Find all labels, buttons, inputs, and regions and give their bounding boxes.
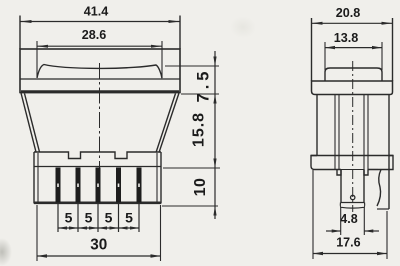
svg-text:5: 5	[125, 210, 133, 226]
svg-text:15.8: 15.8	[191, 112, 208, 147]
svg-text:20.8: 20.8	[336, 6, 361, 20]
svg-text:5: 5	[85, 210, 93, 226]
svg-text:10: 10	[192, 178, 209, 197]
svg-text:17.6: 17.6	[336, 236, 360, 250]
svg-text:30: 30	[90, 236, 107, 253]
svg-text:4.8: 4.8	[340, 212, 357, 226]
svg-text:5: 5	[105, 210, 113, 226]
svg-text:13.8: 13.8	[334, 31, 359, 45]
svg-text:5: 5	[65, 210, 73, 226]
svg-text:41.4: 41.4	[84, 4, 109, 18]
svg-text:28.6: 28.6	[82, 28, 107, 42]
svg-text:7.5: 7.5	[194, 68, 212, 103]
